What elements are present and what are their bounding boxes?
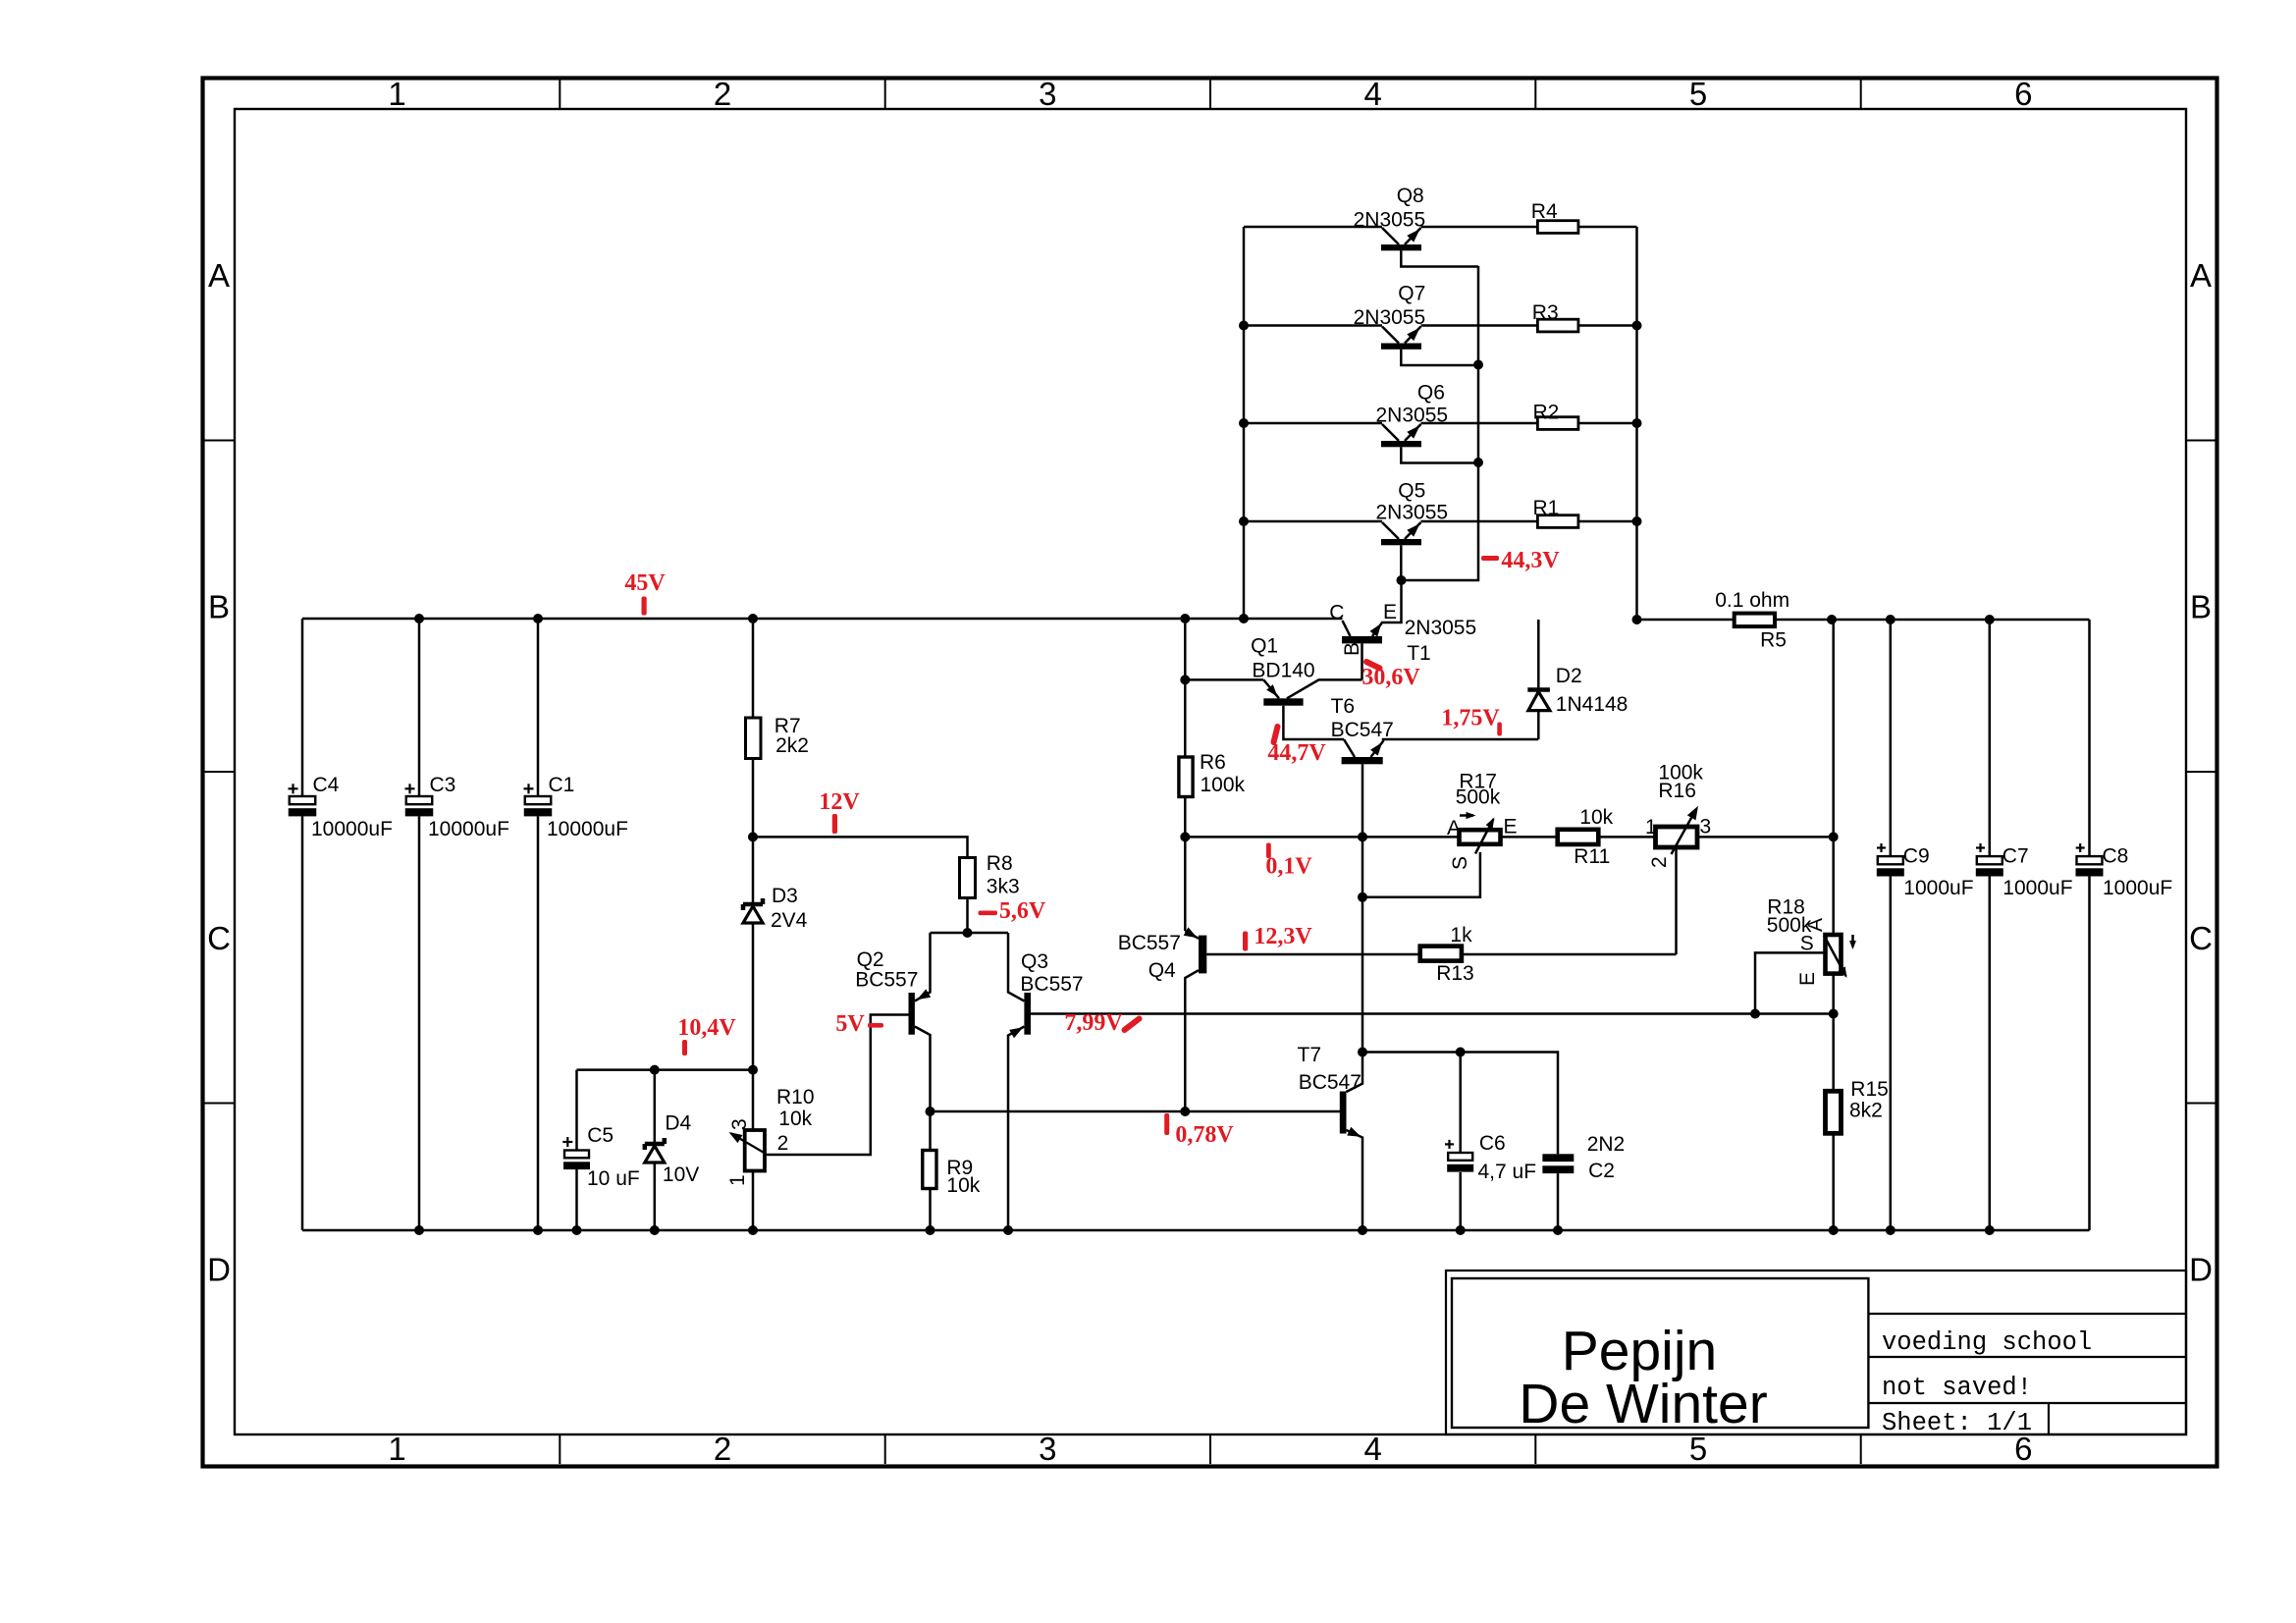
svg-text:3k3: 3k3 xyxy=(987,876,1020,898)
svg-text:B: B xyxy=(2190,588,2212,624)
svg-text:Q5: Q5 xyxy=(1398,479,1425,502)
svg-text:0.1 ohm: 0.1 ohm xyxy=(1715,589,1789,612)
svg-text:3: 3 xyxy=(728,1118,751,1130)
svg-text:500k: 500k xyxy=(1456,785,1501,808)
svg-text:BC547: BC547 xyxy=(1299,1071,1362,1094)
svg-text:R6: R6 xyxy=(1200,751,1226,774)
svg-text:10000uF: 10000uF xyxy=(311,818,393,840)
svg-text:T6: T6 xyxy=(1331,695,1356,718)
svg-text:B: B xyxy=(1341,642,1363,656)
svg-text:C9: C9 xyxy=(1903,844,1930,867)
svg-text:0,78V: 0,78V xyxy=(1175,1122,1234,1148)
svg-text:10k: 10k xyxy=(1579,806,1613,829)
svg-text:Q1: Q1 xyxy=(1251,635,1278,658)
svg-text:44,3V: 44,3V xyxy=(1501,548,1560,573)
svg-text:T1: T1 xyxy=(1407,642,1431,665)
svg-text:1: 1 xyxy=(726,1174,749,1186)
svg-text:B: B xyxy=(208,588,230,624)
svg-text:10,4V: 10,4V xyxy=(677,1015,736,1041)
svg-text:R4: R4 xyxy=(1531,200,1558,223)
svg-text:1000uF: 1000uF xyxy=(2103,877,2172,899)
svg-text:3: 3 xyxy=(1039,1431,1056,1467)
svg-text:C8: C8 xyxy=(2103,844,2129,867)
svg-text:BC557: BC557 xyxy=(1020,973,1083,996)
svg-text:BD140: BD140 xyxy=(1252,659,1314,681)
svg-text:10 uF: 10 uF xyxy=(587,1167,640,1190)
svg-text:E: E xyxy=(1796,972,1819,986)
svg-text:2N3055: 2N3055 xyxy=(1354,306,1426,329)
svg-text:2N3055: 2N3055 xyxy=(1376,405,1449,427)
svg-text:2: 2 xyxy=(1648,856,1671,868)
svg-text:not saved!: not saved! xyxy=(1882,1374,2032,1402)
svg-text:2: 2 xyxy=(714,1431,731,1467)
svg-text:12V: 12V xyxy=(819,789,860,815)
svg-text:5V: 5V xyxy=(835,1011,865,1037)
svg-text:R8: R8 xyxy=(987,852,1013,875)
svg-text:C5: C5 xyxy=(587,1124,614,1147)
svg-text:E: E xyxy=(1504,816,1518,839)
svg-text:4: 4 xyxy=(1364,76,1382,112)
svg-text:10k: 10k xyxy=(778,1108,812,1130)
svg-text:12,3V: 12,3V xyxy=(1254,924,1312,949)
svg-text:T7: T7 xyxy=(1298,1044,1322,1066)
svg-text:A: A xyxy=(1804,918,1827,932)
svg-text:R5: R5 xyxy=(1760,628,1787,651)
svg-text:30,6V: 30,6V xyxy=(1362,665,1420,690)
svg-text:S: S xyxy=(1800,933,1814,955)
svg-text:R2: R2 xyxy=(1533,401,1560,423)
svg-text:C3: C3 xyxy=(430,774,456,796)
svg-text:C1: C1 xyxy=(549,774,575,796)
svg-text:D4: D4 xyxy=(665,1112,691,1135)
svg-text:6: 6 xyxy=(2014,76,2032,112)
svg-text:3: 3 xyxy=(1700,816,1712,839)
svg-text:C2: C2 xyxy=(1588,1160,1615,1182)
svg-text:2N3055: 2N3055 xyxy=(1405,617,1477,639)
svg-text:44,7V: 44,7V xyxy=(1267,740,1326,766)
svg-text:A: A xyxy=(1447,817,1461,839)
svg-text:2V4: 2V4 xyxy=(771,909,808,932)
svg-text:R3: R3 xyxy=(1532,301,1559,324)
svg-text:BC547: BC547 xyxy=(1331,719,1394,741)
svg-text:voeding school: voeding school xyxy=(1882,1328,2092,1357)
svg-text:C: C xyxy=(1329,602,1344,624)
svg-text:R11: R11 xyxy=(1574,845,1610,868)
svg-text:2N3055: 2N3055 xyxy=(1354,208,1426,231)
svg-text:10V: 10V xyxy=(663,1163,699,1186)
svg-text:45V: 45V xyxy=(624,570,666,596)
svg-text:D2: D2 xyxy=(1556,665,1582,687)
svg-text:5: 5 xyxy=(1689,76,1707,112)
svg-text:S: S xyxy=(1449,856,1471,870)
svg-text:1N4148: 1N4148 xyxy=(1556,693,1629,716)
svg-text:E: E xyxy=(1383,601,1397,623)
svg-text:D3: D3 xyxy=(772,885,798,907)
svg-text:De Winter: De Winter xyxy=(1519,1373,1767,1435)
svg-text:D: D xyxy=(2189,1251,2213,1287)
svg-text:5,6V: 5,6V xyxy=(999,898,1046,924)
svg-text:7,99V: 7,99V xyxy=(1064,1010,1123,1036)
svg-text:C: C xyxy=(2189,920,2213,956)
svg-text:Q8: Q8 xyxy=(1397,185,1424,207)
svg-text:1: 1 xyxy=(388,1431,405,1467)
svg-text:C: C xyxy=(207,920,231,956)
svg-text:Q6: Q6 xyxy=(1417,382,1445,405)
svg-text:0,1V: 0,1V xyxy=(1265,854,1312,880)
svg-text:2k2: 2k2 xyxy=(775,734,809,757)
svg-text:A: A xyxy=(208,257,230,294)
svg-text:R15: R15 xyxy=(1850,1078,1889,1101)
svg-text:4: 4 xyxy=(1364,1431,1382,1467)
svg-text:10k: 10k xyxy=(946,1174,980,1197)
svg-text:3: 3 xyxy=(1039,76,1056,112)
svg-text:Q4: Q4 xyxy=(1148,959,1176,982)
svg-text:10000uF: 10000uF xyxy=(547,818,628,840)
svg-text:8k2: 8k2 xyxy=(1849,1100,1883,1122)
svg-text:1k: 1k xyxy=(1450,924,1472,947)
svg-text:Q3: Q3 xyxy=(1021,950,1048,973)
svg-text:100k: 100k xyxy=(1201,774,1246,796)
svg-text:R1: R1 xyxy=(1533,497,1560,519)
svg-text:C6: C6 xyxy=(1479,1132,1506,1155)
svg-text:2: 2 xyxy=(777,1132,789,1155)
svg-text:Q7: Q7 xyxy=(1398,283,1425,305)
svg-text:1000uF: 1000uF xyxy=(2002,877,2072,899)
svg-text:1: 1 xyxy=(388,76,405,112)
svg-text:10000uF: 10000uF xyxy=(428,818,509,840)
svg-text:2: 2 xyxy=(714,76,731,112)
svg-text:A: A xyxy=(2190,257,2212,294)
svg-text:1000uF: 1000uF xyxy=(1903,877,1973,899)
svg-text:Sheet: 1/1: Sheet: 1/1 xyxy=(1882,1409,2032,1437)
svg-text:BC557: BC557 xyxy=(1118,932,1181,954)
svg-text:5: 5 xyxy=(1689,1431,1707,1467)
svg-text:R10: R10 xyxy=(776,1086,815,1109)
svg-text:R13: R13 xyxy=(1436,962,1474,985)
svg-text:D: D xyxy=(207,1251,231,1287)
svg-text:2N2: 2N2 xyxy=(1587,1133,1626,1156)
svg-text:C4: C4 xyxy=(313,774,340,796)
svg-text:BC557: BC557 xyxy=(855,969,918,992)
svg-text:1: 1 xyxy=(1645,816,1657,839)
svg-text:4,7 uF: 4,7 uF xyxy=(1478,1161,1537,1183)
svg-text:C7: C7 xyxy=(2002,844,2029,867)
svg-text:1,75V: 1,75V xyxy=(1441,706,1500,731)
svg-text:Q2: Q2 xyxy=(857,948,884,971)
svg-text:R16: R16 xyxy=(1658,780,1696,802)
svg-text:2N3055: 2N3055 xyxy=(1376,502,1449,524)
